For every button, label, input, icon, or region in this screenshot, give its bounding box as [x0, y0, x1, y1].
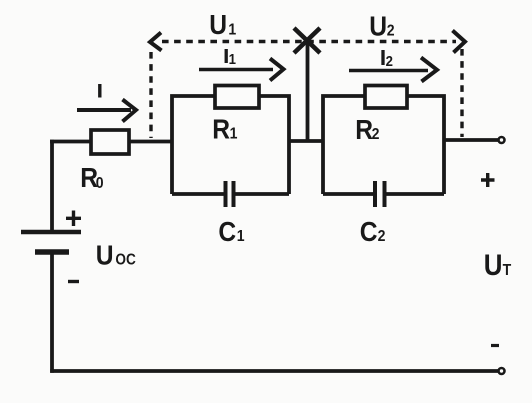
label R2	[355, 114, 379, 146]
resistor R0 body	[91, 130, 129, 154]
capacitor C1 left plate	[224, 181, 228, 207]
svg-text:T: T	[503, 261, 512, 279]
svg-text:U: U	[96, 239, 114, 271]
label U_OC	[96, 239, 136, 271]
wire left vertical battery bottom	[50, 252, 54, 373]
resistor R2 body	[365, 86, 407, 109]
svg-text:C: C	[218, 216, 236, 248]
negative output terminal circle	[499, 368, 505, 374]
label U_T	[484, 248, 512, 281]
wire left vertical battery top	[50, 140, 54, 232]
svg-text:U: U	[484, 248, 503, 281]
capacitor C2 right plate	[383, 181, 387, 207]
RC loop 2 outline (R2 parallel C2)	[323, 96, 444, 194]
battery minus sign	[68, 280, 79, 283]
label R0	[80, 162, 103, 194]
svg-text:1: 1	[230, 125, 238, 143]
current label I2 glyph bar	[381, 50, 384, 65]
svg-text:2: 2	[378, 227, 386, 245]
output plus sign	[481, 173, 495, 187]
label C2	[360, 216, 386, 248]
battery plus sign	[66, 211, 81, 227]
svg-text:R: R	[212, 113, 230, 145]
battery U_OC positive long plate	[21, 230, 81, 235]
label U1	[209, 9, 236, 41]
node X cross mark on dashed measurement line	[294, 28, 320, 53]
current arrow I1 shaft	[199, 68, 273, 71]
svg-text:C: C	[360, 216, 378, 248]
current arrow I head	[123, 100, 137, 122]
svg-text:U: U	[369, 10, 387, 42]
svg-text:OC: OC	[115, 252, 136, 269]
current arrow I2 shaft	[349, 69, 428, 72]
current arrow I2 head	[421, 58, 437, 82]
svg-text:2: 2	[386, 52, 393, 69]
wire top left horizontal from battery node to R0 and on to loop1	[50, 140, 173, 144]
capacitor C1 right plate	[232, 181, 236, 207]
current label I glyph bar	[98, 84, 101, 98]
label C1	[218, 216, 244, 248]
positive output terminal circle	[499, 137, 505, 143]
label U2	[369, 10, 394, 42]
RC loop 1 outline (R1 parallel C1)	[172, 96, 289, 194]
svg-text:2: 2	[372, 125, 380, 143]
svg-text:1: 1	[237, 227, 245, 245]
svg-text:U: U	[209, 9, 227, 41]
capacitor C2 left plate	[373, 181, 377, 207]
dashed measurement line right vertical drop	[460, 49, 463, 137]
arrowhead left end of U1 dashed line	[150, 33, 162, 51]
wire junction between RC loop1 and loop2	[288, 139, 324, 143]
svg-text:2: 2	[387, 22, 395, 40]
output minus sign	[491, 344, 499, 347]
arrowhead right end of U2 dashed line	[453, 31, 466, 53]
resistor R1 body	[215, 86, 259, 109]
svg-text:R: R	[355, 114, 373, 146]
svg-text:1: 1	[228, 21, 236, 39]
current arrow I shaft	[77, 108, 131, 112]
current arrow I1 head	[270, 59, 284, 81]
label R1	[212, 113, 237, 145]
dashed measurement line left vertical drop	[149, 52, 152, 138]
battery U_OC negative short plate	[35, 249, 69, 255]
dashed measurement line U1-U2 horizontal	[162, 40, 456, 43]
wire bottom return from battery to negative terminal	[50, 369, 499, 373]
svg-text:0: 0	[96, 174, 104, 192]
wire vertical from node X down to junction between loops	[306, 40, 310, 142]
svg-text:1: 1	[229, 50, 236, 67]
current label I1 glyph bar	[225, 49, 228, 63]
wire from loop2 to positive output terminal	[443, 138, 499, 142]
